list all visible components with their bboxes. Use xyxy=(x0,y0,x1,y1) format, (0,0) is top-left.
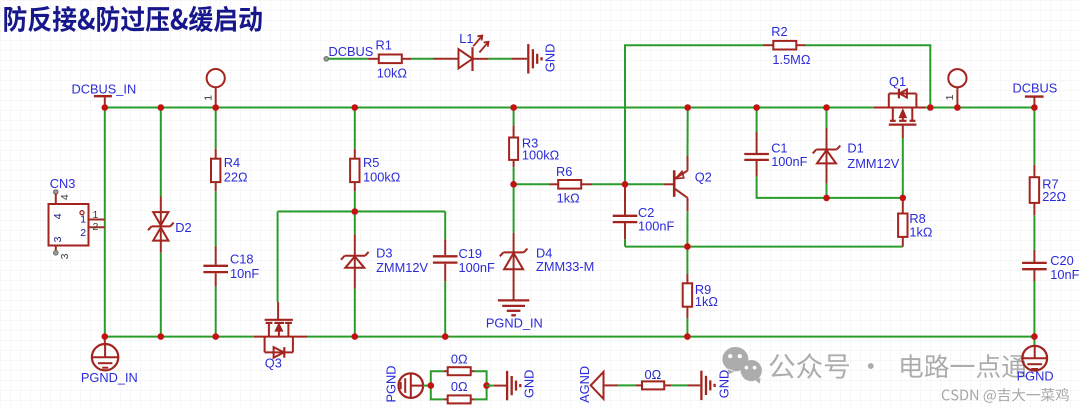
svg-text:CN3: CN3 xyxy=(50,176,76,191)
wire bottom bus xyxy=(105,336,1035,338)
svg-text:4: 4 xyxy=(52,213,64,219)
wire xyxy=(624,239,626,246)
wire xyxy=(902,138,904,198)
svg-text:DCBUS_IN: DCBUS_IN xyxy=(72,82,137,97)
wire xyxy=(514,183,550,185)
svg-text:R1: R1 xyxy=(376,37,392,52)
led L1 xyxy=(433,31,489,71)
resistor 0R bottom xyxy=(444,379,474,403)
svg-text:R6: R6 xyxy=(556,164,572,179)
svg-text:ZMM33-M: ZMM33-M xyxy=(536,259,594,274)
wire xyxy=(625,45,763,184)
wire xyxy=(215,108,217,149)
svg-text:3: 3 xyxy=(59,253,71,259)
capacitor C18 xyxy=(203,246,259,287)
svg-text:D1: D1 xyxy=(847,140,863,155)
wire xyxy=(354,289,356,337)
net label DCBUS (top) xyxy=(324,44,373,61)
svg-text:GND: GND xyxy=(542,44,557,72)
svg-text:100nF: 100nF xyxy=(771,154,807,169)
svg-text:0Ω: 0Ω xyxy=(451,379,468,394)
junction (445.2,336.6) xyxy=(442,333,449,340)
svg-text:L1: L1 xyxy=(459,31,473,46)
wire xyxy=(625,246,903,248)
junction (354.8,336.6) xyxy=(352,333,359,340)
junction (486.6,385.6) xyxy=(483,382,490,389)
svg-text:D3: D3 xyxy=(376,245,392,260)
wire xyxy=(757,177,827,198)
junction (625,184.3) xyxy=(622,181,629,188)
resistor R5 xyxy=(350,149,401,191)
transistor Q2 xyxy=(664,156,712,212)
wire xyxy=(160,253,162,337)
wire xyxy=(686,211,688,247)
port pin 1 (left) xyxy=(203,69,225,108)
svg-text:1kΩ: 1kΩ xyxy=(695,294,719,309)
svg-text:DCBUS: DCBUS xyxy=(1013,80,1058,95)
power PGND_IN (earth) xyxy=(486,300,543,330)
svg-text:1kΩ: 1kΩ xyxy=(909,224,933,239)
resistor R8 xyxy=(898,198,933,247)
wire xyxy=(354,191,356,211)
svg-text:GND: GND xyxy=(521,370,536,398)
power GND (group2) xyxy=(687,370,731,400)
wire xyxy=(513,167,515,184)
wire xyxy=(592,183,664,185)
junction (215.7,107.5) xyxy=(212,104,219,111)
svg-text:ZMM12V: ZMM12V xyxy=(376,260,428,275)
watermark text 电路一点通 xyxy=(901,354,1026,378)
svg-text:2: 2 xyxy=(80,227,86,239)
svg-text:1: 1 xyxy=(944,94,956,100)
svg-text:GND: GND xyxy=(716,370,731,398)
power GND (top) xyxy=(511,44,557,74)
svg-text:PGND_IN: PGND_IN xyxy=(81,370,138,385)
capacitor C19 xyxy=(433,239,495,281)
svg-text:Q1: Q1 xyxy=(889,74,906,89)
wire mid horizontal xyxy=(278,211,446,213)
svg-text:C19: C19 xyxy=(459,246,482,261)
wire xyxy=(756,108,758,133)
power AGND xyxy=(577,366,604,403)
svg-text:R5: R5 xyxy=(363,155,379,170)
junction (687.4,246.6) xyxy=(684,243,691,250)
junction (104.8,107.5) xyxy=(102,104,109,111)
wire xyxy=(806,45,930,107)
mosfet Q1 xyxy=(874,74,926,138)
junction (902.8,197.9) xyxy=(900,195,907,202)
wire xyxy=(423,385,431,387)
svg-text:100nF: 100nF xyxy=(459,260,495,275)
wire xyxy=(826,184,828,198)
junction (687.4,336.6) xyxy=(684,333,691,340)
wire main top bus xyxy=(105,107,874,109)
junction (513.6,107.5) xyxy=(510,104,517,111)
wire xyxy=(513,108,515,126)
wire xyxy=(215,287,217,337)
power GND (group1) xyxy=(494,370,537,401)
svg-text:Q3: Q3 xyxy=(265,355,282,370)
svg-text:4: 4 xyxy=(59,194,71,200)
svg-text:DCBUS: DCBUS xyxy=(329,44,374,59)
svg-text:1: 1 xyxy=(203,95,215,101)
junction (430.8,385.6) xyxy=(428,382,435,389)
svg-text:10kΩ: 10kΩ xyxy=(377,66,408,81)
resistor R6 xyxy=(549,164,592,205)
zener diode D3 xyxy=(341,234,428,289)
capacitor C20 xyxy=(1022,250,1080,282)
wire left vertical xyxy=(104,108,106,337)
svg-text:1: 1 xyxy=(80,213,86,225)
wire xyxy=(827,197,903,199)
watermark text 公众号 · xyxy=(769,353,873,379)
wire xyxy=(487,385,494,387)
svg-text:100kΩ: 100kΩ xyxy=(522,148,560,163)
capacitor C2 xyxy=(613,184,675,239)
svg-text:10nF: 10nF xyxy=(1050,267,1079,282)
svg-text:C18: C18 xyxy=(230,252,253,267)
wire xyxy=(686,318,688,336)
junction (354.8,107.5) xyxy=(352,104,359,111)
wire xyxy=(160,108,162,197)
junction (957.4,107.5) xyxy=(954,104,961,111)
junction (687.7,107.5) xyxy=(684,104,691,111)
svg-text:22Ω: 22Ω xyxy=(224,170,248,185)
wire xyxy=(1033,215,1035,250)
svg-text:R4: R4 xyxy=(224,155,240,170)
resistor R2 xyxy=(763,24,811,67)
svg-text:C20: C20 xyxy=(1050,253,1073,268)
net flag DCBUS (right) xyxy=(1013,80,1058,107)
resistor 0R top xyxy=(444,351,474,375)
wire xyxy=(444,281,446,336)
mosfet Q3 xyxy=(254,302,308,370)
svg-text:1: 1 xyxy=(93,209,99,221)
svg-text:PGND_IN: PGND_IN xyxy=(486,316,543,331)
resistor R4 xyxy=(211,149,248,191)
svg-text:3: 3 xyxy=(52,236,64,242)
power PGND_IN (circle) xyxy=(81,337,138,385)
junction (930.3,107.5) xyxy=(927,104,934,111)
tvs diode D2 xyxy=(148,197,192,253)
svg-text:22Ω: 22Ω xyxy=(1042,189,1066,204)
watermark wechat icon xyxy=(722,347,761,384)
resistor R9 xyxy=(683,274,719,318)
junction (1034.4,336.6) xyxy=(1031,333,1038,340)
junction (160.8,107.5) xyxy=(158,104,165,111)
junction (104.8,336.6) xyxy=(102,333,109,340)
svg-text:PGND: PGND xyxy=(1017,369,1054,384)
wire loop bottom xyxy=(431,386,487,400)
junction (354.8,211.5) xyxy=(352,208,359,215)
svg-text:2: 2 xyxy=(93,221,99,233)
junction (215.7,336.6) xyxy=(212,333,219,340)
svg-text:Q2: Q2 xyxy=(695,170,712,185)
svg-text:D2: D2 xyxy=(175,220,191,235)
wire top bus right xyxy=(926,107,1034,109)
resistor R1 xyxy=(368,37,411,80)
svg-text:10nF: 10nF xyxy=(230,266,259,281)
wire xyxy=(488,58,511,60)
junction (756.6,107.5) xyxy=(753,104,760,111)
svg-text:100kΩ: 100kΩ xyxy=(363,170,401,185)
svg-text:ZMM12V: ZMM12V xyxy=(847,156,899,171)
wire xyxy=(686,247,688,274)
svg-text:0Ω: 0Ω xyxy=(451,351,468,366)
capacitor C1 xyxy=(744,132,807,177)
svg-text:AGND: AGND xyxy=(577,366,592,403)
wire xyxy=(354,212,356,235)
wire xyxy=(277,212,279,303)
port pin 1 (right) xyxy=(944,69,966,107)
wire loop top xyxy=(431,371,487,385)
wire xyxy=(411,58,433,60)
svg-text:R2: R2 xyxy=(771,24,787,39)
wire xyxy=(687,108,689,156)
wire xyxy=(604,384,637,386)
svg-text:100nF: 100nF xyxy=(638,219,674,234)
wire xyxy=(1033,281,1035,337)
wire xyxy=(513,184,515,233)
svg-text:1.5MΩ: 1.5MΩ xyxy=(772,52,810,67)
wire xyxy=(671,384,687,386)
junction (826.5,107.5) xyxy=(823,104,830,111)
junction (160.8,336.6) xyxy=(158,333,165,340)
junction (513.6,184.3) xyxy=(510,181,517,188)
resistor 0R xyxy=(636,367,671,389)
power PGND (left circle) xyxy=(383,366,423,403)
resistor R7 xyxy=(1030,165,1067,216)
junction (1034.4,107.5) xyxy=(1031,104,1038,111)
junction (826.5,197.9) xyxy=(823,195,830,202)
zener diode D1 xyxy=(813,128,900,184)
connector CN3 xyxy=(49,176,105,259)
title text 防反接&防过压&缓启动 xyxy=(4,6,261,32)
wire xyxy=(354,108,356,149)
wire xyxy=(444,212,446,240)
svg-text:0Ω: 0Ω xyxy=(645,367,662,382)
resistor R3 xyxy=(509,125,560,167)
net flag DCBUS_IN xyxy=(72,82,137,108)
wire xyxy=(215,191,217,246)
watermark text CSDN @吉大一菜鸡 xyxy=(942,388,1069,403)
zener diode D4 xyxy=(500,233,594,301)
svg-text:PGND: PGND xyxy=(383,366,398,403)
wire xyxy=(1033,108,1035,165)
wire xyxy=(328,58,368,60)
svg-text:1kΩ: 1kΩ xyxy=(557,190,581,205)
wire xyxy=(826,108,828,129)
power PGND (right circle) xyxy=(1017,337,1054,384)
